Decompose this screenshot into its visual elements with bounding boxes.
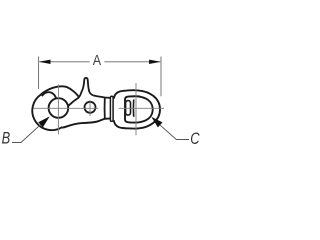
extension line left (38, 57, 40, 90)
gate upper edge (hump) (41, 86, 79, 97)
body end edge (104, 98, 106, 119)
pin vertical centerline (89, 100, 91, 116)
leader line C (153, 118, 190, 139)
swivel pin slot capsule (126, 101, 131, 116)
plunger (release pin) (79, 78, 94, 98)
svg-text:B: B (2, 129, 11, 148)
left eye vertical centerline (57, 85, 59, 135)
inner circle (eye hole) (49, 98, 69, 118)
leader arrowhead B (38, 116, 49, 127)
body top edge (94, 96, 111, 98)
swivel inner hole far edge (132, 99, 134, 116)
dimension line A left segment (40, 61, 90, 63)
svg-text:C: C (190, 129, 199, 148)
gate tip cusp arc (42, 92, 56, 99)
pin rivet circle (85, 102, 96, 113)
body left edge to hole (69, 98, 79, 106)
swivel eye inner D opening (125, 96, 153, 122)
eye ring (left bail circle) (32, 94, 62, 130)
swivel washer tab (110, 96, 113, 121)
dimension arrowhead right (149, 60, 161, 64)
main horizontal centerline (34, 107, 165, 109)
swivel vertical centerline (135, 83, 137, 135)
swivel eye outer (114, 90, 160, 128)
svg-text:A: A (93, 52, 101, 68)
dimension line A right segment (104, 61, 160, 63)
body bottom edge (62, 118, 110, 127)
leader line B (12, 118, 48, 143)
leader arrowhead C (151, 117, 162, 128)
extension line right (160, 57, 162, 97)
dimension arrowhead left (39, 60, 51, 64)
